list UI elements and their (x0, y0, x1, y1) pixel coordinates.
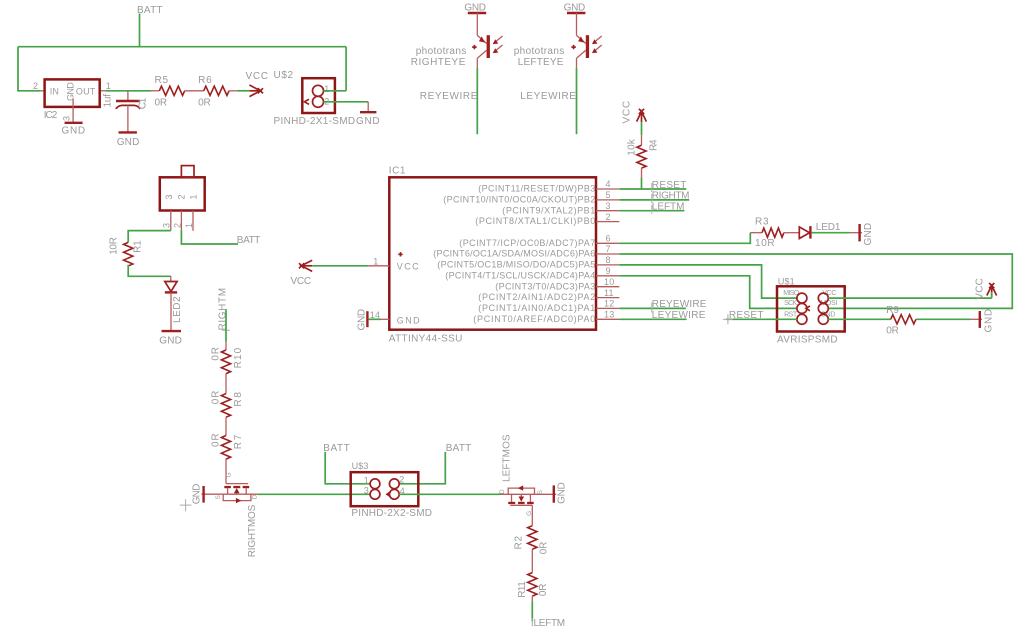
svg-text:(PCINT10/INT0/OC0A/CKOUT)PB2: (PCINT10/INT0/OC0A/CKOUT)PB2 (443, 195, 595, 205)
wire R8-R7 (225, 417, 227, 435)
svg-text:(PCINT4/T1/SCL/USCK/ADC4)PA4: (PCINT4/T1/SCL/USCK/ADC4)PA4 (445, 270, 595, 280)
power VCC (arrow right) (246, 71, 269, 97)
svg-text:3: 3 (162, 223, 172, 228)
svg-text:IN: IN (50, 86, 59, 96)
wire BATT top rail (18, 46, 346, 48)
svg-text:LEFTMOS: LEFTMOS (502, 434, 513, 482)
svg-text:VCC: VCC (397, 261, 419, 271)
capacitor C1 (103, 91, 149, 132)
svg-text:GND: GND (397, 315, 420, 325)
wire RIGHTM net down (225, 309, 227, 342)
svg-text:3: 3 (62, 116, 72, 121)
wire right drop to U$2 pin 1 (345, 47, 347, 91)
svg-text:0R: 0R (211, 390, 222, 404)
svg-text:R11: R11 (517, 581, 528, 598)
transistor RIGHTMOS (N-MOSFET) (201, 472, 258, 557)
svg-text:GND: GND (192, 483, 203, 504)
svg-text:10: 10 (604, 277, 614, 287)
svg-text:G: G (526, 511, 533, 516)
wire R2-R11 (531, 549, 533, 572)
node REYEWIRE label (420, 91, 478, 102)
node REYEWIRE label (652, 299, 707, 312)
wire pin 6 to R3 (619, 233, 750, 244)
wire RESET (pin 4) (619, 188, 686, 190)
wire pin 7 to MOSI (long net) (619, 254, 1012, 308)
ground GND (IC1) (357, 309, 368, 331)
svg-text:8: 8 (606, 255, 611, 265)
LED LED1 (799, 222, 841, 239)
svg-text:RESET: RESET (729, 310, 764, 321)
node RIGHTM (vertical label) (217, 288, 230, 331)
ground GND (U$2) (356, 112, 380, 127)
svg-text:G: G (226, 472, 233, 477)
svg-text:1: 1 (373, 256, 378, 266)
wire BATT right to U$3 pin2 (399, 452, 445, 484)
resistor R7 (211, 433, 245, 459)
svg-text:6: 6 (606, 234, 611, 244)
svg-text:(PCINT3/T0/ADC3)PA3: (PCINT3/T0/ADC3)PA3 (495, 281, 595, 291)
origin cross (180, 499, 192, 511)
svg-text:LEYEWIRE: LEYEWIRE (652, 310, 706, 321)
svg-text:RST: RST (784, 312, 798, 319)
svg-text:0R: 0R (155, 97, 168, 108)
node RESET label (AVRISP) (723, 310, 764, 324)
phototransistor LEFTEYE (514, 13, 602, 68)
svg-text:1: 1 (184, 223, 194, 228)
wire R10-R8 (225, 374, 227, 394)
svg-text:BATT: BATT (446, 443, 472, 454)
phototransistor RIGHTEYE (411, 13, 503, 68)
wire BATT left to U$3 pin1 (325, 452, 370, 484)
svg-text:(PCINT7/ICP/OC0B/ADC7)PA7: (PCINT7/ICP/OC0B/ADC7)PA7 (459, 238, 595, 248)
svg-text:R1: R1 (133, 240, 144, 253)
wire GND pin to R9 (828, 318, 890, 320)
svg-text:(PCINT11/RESET/DW)PB3: (PCINT11/RESET/DW)PB3 (478, 184, 595, 194)
transistor LEFTMOS (P-MOSFET mirrored) (499, 434, 556, 526)
ground GND (LED1) (860, 223, 874, 246)
svg-text:S: S (537, 490, 544, 495)
pin 1 (VCC) (368, 256, 389, 266)
IC1 right pin numbers (604, 179, 614, 319)
node LEFTM label (532, 618, 565, 629)
svg-text:0R: 0R (539, 541, 550, 554)
wire pin1 to VCC arrow (313, 265, 369, 267)
svg-text:SCK: SCK (784, 300, 797, 307)
svg-text:BATT: BATT (323, 443, 350, 454)
svg-text:(PCINT1/AIN0/ADC1)PA1: (PCINT1/AIN0/ADC1)PA1 (478, 303, 595, 313)
svg-text:11: 11 (604, 288, 614, 298)
svg-text:0R: 0R (211, 347, 222, 361)
svg-text:1: 1 (364, 476, 369, 486)
svg-text:(PCINT2/AIN1/ADC2)PA2: (PCINT2/AIN1/ADC2)PA2 (478, 292, 595, 302)
svg-text:4: 4 (606, 179, 611, 189)
svg-text:RIGHTM: RIGHTM (652, 191, 690, 202)
node LEYEWIRE label (652, 310, 706, 321)
connector U$2 PINHD-2X1-SMD (274, 70, 356, 127)
svg-text:AVRISPSMD: AVRISPSMD (777, 335, 838, 346)
svg-text:GND: GND (117, 137, 140, 148)
regulator IC2 (33, 79, 111, 121)
svg-text:VCC: VCC (974, 278, 985, 300)
resistor R4 (627, 138, 660, 168)
node LEYEWIRE label (520, 91, 576, 102)
node LEFTM label (652, 202, 685, 214)
wire pin 8 to MISO (619, 265, 797, 298)
ground GND (RIGHTMOS source) (192, 483, 204, 504)
connector U$3 PINHD-2X2-SMD (351, 461, 433, 519)
wire RIGHTM (pin 5) (619, 199, 689, 201)
svg-text:R6: R6 (198, 75, 212, 86)
svg-text:LEYEWIRE: LEYEWIRE (520, 91, 576, 102)
resistor R9 (886, 305, 916, 337)
svg-text:(PCINT9/XTAL2)PB1: (PCINT9/XTAL2)PB1 (502, 205, 595, 215)
svg-text:13: 13 (604, 310, 614, 320)
node BATT (right, U$3) (446, 443, 472, 454)
svg-text:IC1: IC1 (389, 166, 406, 177)
svg-text:C1: C1 (138, 97, 149, 109)
svg-text:1uf: 1uf (103, 94, 114, 108)
svg-text:VCC: VCC (622, 101, 633, 124)
svg-text:GND: GND (356, 116, 380, 127)
svg-text:U$2: U$2 (274, 70, 294, 81)
resistor R3 (750, 216, 799, 249)
svg-text:GND: GND (357, 309, 368, 331)
svg-text:GND: GND (62, 126, 86, 137)
wire pin3 to R1 (128, 231, 171, 243)
wire U$2 pin2 to ground (324, 101, 369, 103)
resistor R11 (517, 573, 549, 598)
IC1 right pin stubs (596, 189, 619, 319)
svg-text:VCC: VCC (246, 71, 269, 82)
power VCC (R4 pull-up, arrow up) (622, 101, 647, 124)
resistor R5 (151, 75, 204, 108)
ground GND (R9) (980, 309, 995, 333)
svg-text:12: 12 (604, 299, 614, 309)
svg-text:GND: GND (159, 336, 182, 347)
wire LEYEWIRE (pin 13) (619, 318, 686, 320)
svg-text:RESET: RESET (652, 180, 687, 191)
wire LEYEWIRE (576, 68, 578, 134)
svg-text:D: D (251, 494, 258, 499)
node RESET label (652, 180, 687, 192)
transistor package T1 (3-pin device) (160, 166, 205, 231)
resistor R10 (211, 347, 245, 374)
svg-text:2: 2 (172, 223, 182, 228)
wire U$2 pin1 to BATT rail (324, 90, 347, 92)
resistor R1 (109, 237, 144, 266)
svg-text:R10: R10 (233, 347, 244, 368)
wire IC2 pin3 to ground (72, 99, 74, 122)
wire R9 to ground (916, 318, 971, 320)
svg-text:ATTINY44-SSU: ATTINY44-SSU (389, 334, 463, 345)
ground GND (LEFTEYE) (564, 3, 586, 14)
svg-text:1: 1 (189, 194, 199, 199)
connector U$1 AVRISPSMD (777, 277, 845, 346)
svg-text:RIGHTMOS: RIGHTMOS (247, 504, 258, 557)
svg-text:0R: 0R (198, 97, 211, 108)
wire R11 to LEFTM (531, 596, 533, 601)
wire BATT vertical drop (139, 14, 141, 47)
svg-text:phototrans: phototrans (514, 46, 565, 57)
svg-text:0R: 0R (886, 326, 899, 337)
svg-text:LEFTEYE: LEFTEYE (518, 57, 564, 68)
svg-text:0R: 0R (538, 583, 549, 596)
svg-text:1: 1 (324, 84, 329, 94)
svg-text:(PCINT6/OC1A/SDA/MOSI/ADC6)PA6: (PCINT6/OC1A/SDA/MOSI/ADC6)PA6 (433, 249, 595, 259)
wire pin 9 to SCK (619, 276, 797, 309)
svg-text:GND: GND (66, 82, 76, 101)
svg-text:2: 2 (33, 81, 38, 91)
IC1 pin function labels (433, 184, 595, 324)
svg-text:PINHD-2X1-SMD: PINHD-2X1-SMD (274, 116, 356, 127)
svg-text:OUT: OUT (76, 86, 96, 96)
power VCC (arrow up, right) (974, 278, 996, 300)
svg-text:3: 3 (364, 486, 369, 496)
svg-text:0R: 0R (211, 433, 222, 447)
wire IC2 out to R5 (105, 90, 151, 92)
wire RESET to RST pin (726, 318, 797, 320)
wire R6 to VCC (237, 90, 250, 92)
svg-text:5: 5 (606, 190, 611, 200)
wire pin2 to BATT (181, 230, 238, 244)
ground GND (LED2) (159, 331, 182, 346)
svg-text:GND: GND (984, 309, 995, 333)
svg-text:LED1: LED1 (816, 222, 841, 233)
svg-text:LEFTM: LEFTM (534, 618, 566, 629)
svg-text:REYEWIRE: REYEWIRE (420, 91, 478, 102)
svg-text:R9: R9 (886, 305, 899, 316)
svg-text:REYEWIRE: REYEWIRE (652, 299, 707, 310)
ground GND (RIGHTEYE) (464, 3, 486, 14)
resistor R8 (211, 390, 245, 417)
wire RIGHTMOS drain to U$3 (258, 493, 371, 495)
svg-text:10R: 10R (755, 238, 775, 249)
svg-text:RIGHTEYE: RIGHTEYE (411, 57, 466, 68)
wire REYEWIRE (pin 12) (619, 307, 686, 309)
svg-text:10k: 10k (627, 138, 638, 156)
svg-text:phototrans: phototrans (416, 46, 467, 57)
svg-text:R3: R3 (755, 216, 769, 227)
svg-text:IC2: IC2 (44, 110, 58, 121)
wire LEFTM (pin 3) (619, 210, 684, 212)
svg-text:3: 3 (606, 201, 611, 211)
wire left drop to IC2 pin 2 (18, 47, 41, 91)
node RIGHTM label (652, 191, 690, 203)
svg-text:3: 3 (164, 194, 174, 199)
svg-text:2: 2 (177, 194, 187, 199)
svg-text:BATT: BATT (237, 235, 261, 246)
svg-text:(PCINT8/XTAL1/CLKI)PB0: (PCINT8/XTAL1/CLKI)PB0 (475, 216, 595, 226)
svg-text:7: 7 (606, 244, 611, 254)
svg-text:BATT: BATT (137, 5, 163, 16)
ground GND (IC2) (62, 123, 86, 137)
svg-text:2: 2 (399, 475, 404, 485)
wire R4 to RESET net (641, 168, 643, 177)
svg-text:1: 1 (106, 81, 111, 91)
node BATT (left, U$3) (323, 443, 350, 454)
svg-text:LED2: LED2 (172, 296, 183, 323)
svg-text:U$3: U$3 (352, 461, 369, 471)
resistor R6 (198, 75, 237, 108)
IC U$IC1 ATTINY44-SSU (389, 166, 596, 345)
svg-text:GND: GND (863, 223, 874, 246)
ground GND (C1) (117, 132, 140, 148)
svg-text:10R: 10R (109, 237, 120, 255)
svg-text:2: 2 (606, 212, 611, 222)
wire U$3 pin4 to LEFTMOS drain (399, 493, 500, 495)
svg-text:R5: R5 (155, 75, 169, 86)
resistor R2 (514, 526, 550, 555)
svg-text:LEFTM: LEFTM (652, 202, 685, 213)
svg-text:D: D (499, 489, 506, 494)
wire R7 to gate (225, 459, 227, 484)
wire VCC to R4 (641, 122, 643, 135)
svg-text:S: S (215, 495, 222, 500)
power VCC (arrow left) (291, 260, 313, 287)
svg-text:PINHD-2X2-SMD: PINHD-2X2-SMD (351, 508, 432, 519)
svg-text:R2: R2 (514, 535, 525, 549)
wire VCC pin to arrow (828, 297, 991, 299)
svg-text:R4: R4 (649, 139, 660, 151)
node BATT (top label) (137, 5, 163, 16)
wire R1 to LED2 (128, 265, 171, 277)
ground GND (LEFTMOS source) (554, 482, 568, 504)
svg-text:R7: R7 (233, 434, 244, 449)
svg-text:(PCINT0/AREF/ADC0)PA0: (PCINT0/AREF/ADC0)PA0 (473, 314, 595, 324)
svg-text:VCC: VCC (291, 276, 312, 287)
svg-text:GND: GND (557, 482, 568, 504)
node BATT (transistor) (237, 235, 261, 246)
LED LED2 (165, 282, 183, 331)
pin 14 (GND) (370, 310, 390, 320)
wire pin14 to ground (369, 318, 381, 320)
svg-text:(PCINT5/OC1B/MISO/DO/ADC5)PA5: (PCINT5/OC1B/MISO/DO/ADC5)PA5 (437, 260, 595, 270)
svg-text:R8: R8 (233, 392, 244, 407)
svg-text:9: 9 (606, 266, 611, 276)
wire REYEWIRE (476, 68, 478, 134)
wire LED1 to ground (812, 232, 850, 234)
